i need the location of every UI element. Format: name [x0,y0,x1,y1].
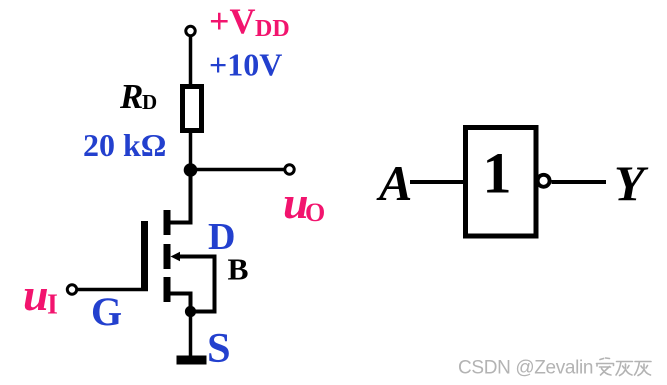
svg-text:1: 1 [483,141,512,206]
ground [177,356,207,365]
node source junction [185,306,196,317]
inverter gate U1 [466,128,537,237]
wire source stub [170,294,191,312]
svg-text:R: R [119,77,143,116]
body arrow [171,252,181,261]
wire source to ground [189,312,193,357]
transistor Q1 drain bar [164,210,171,235]
svg-text:u: u [23,269,49,320]
transistor Q1 source bar [164,277,171,302]
label RD [119,77,157,116]
label uO [283,177,325,228]
svg-text:20 kΩ: 20 kΩ [83,127,166,163]
resistor RD [183,87,202,131]
svg-text:CSDN @Zevalin: CSDN @Zevalin [458,358,593,379]
svg-text:Y: Y [614,155,649,211]
terminal uI [67,285,76,294]
svg-text:D: D [142,90,157,114]
svg-text:B: B [228,253,249,287]
svg-text:G: G [91,289,122,334]
watermark CSDN [457,357,593,379]
svg-text:+10V: +10V [209,47,282,83]
wire node to uO [191,168,286,172]
wire node to drain stub [166,170,191,223]
svg-text:+V: +V [209,1,256,41]
svg-text:A: A [376,155,412,211]
node drain junction [184,163,198,177]
transistor Q1 body bar [164,244,171,269]
wire RD to node [189,131,193,173]
output bubble [538,175,550,187]
label +VDD [209,1,290,42]
label uI [23,269,58,321]
transistor Q1 gate bar [141,221,148,291]
wire VDD to RD [189,36,193,88]
svg-text:I: I [47,290,58,321]
watermark CJK glyphs [597,358,652,376]
wire output Y [552,180,607,184]
svg-text:O: O [305,198,325,227]
svg-text:S: S [207,325,231,372]
wire gate [77,288,149,292]
wire input A [410,180,464,184]
wire body to source node [179,257,215,312]
terminal +VDD [186,26,195,35]
svg-text:DD: DD [255,16,290,42]
terminal uO [285,165,294,174]
